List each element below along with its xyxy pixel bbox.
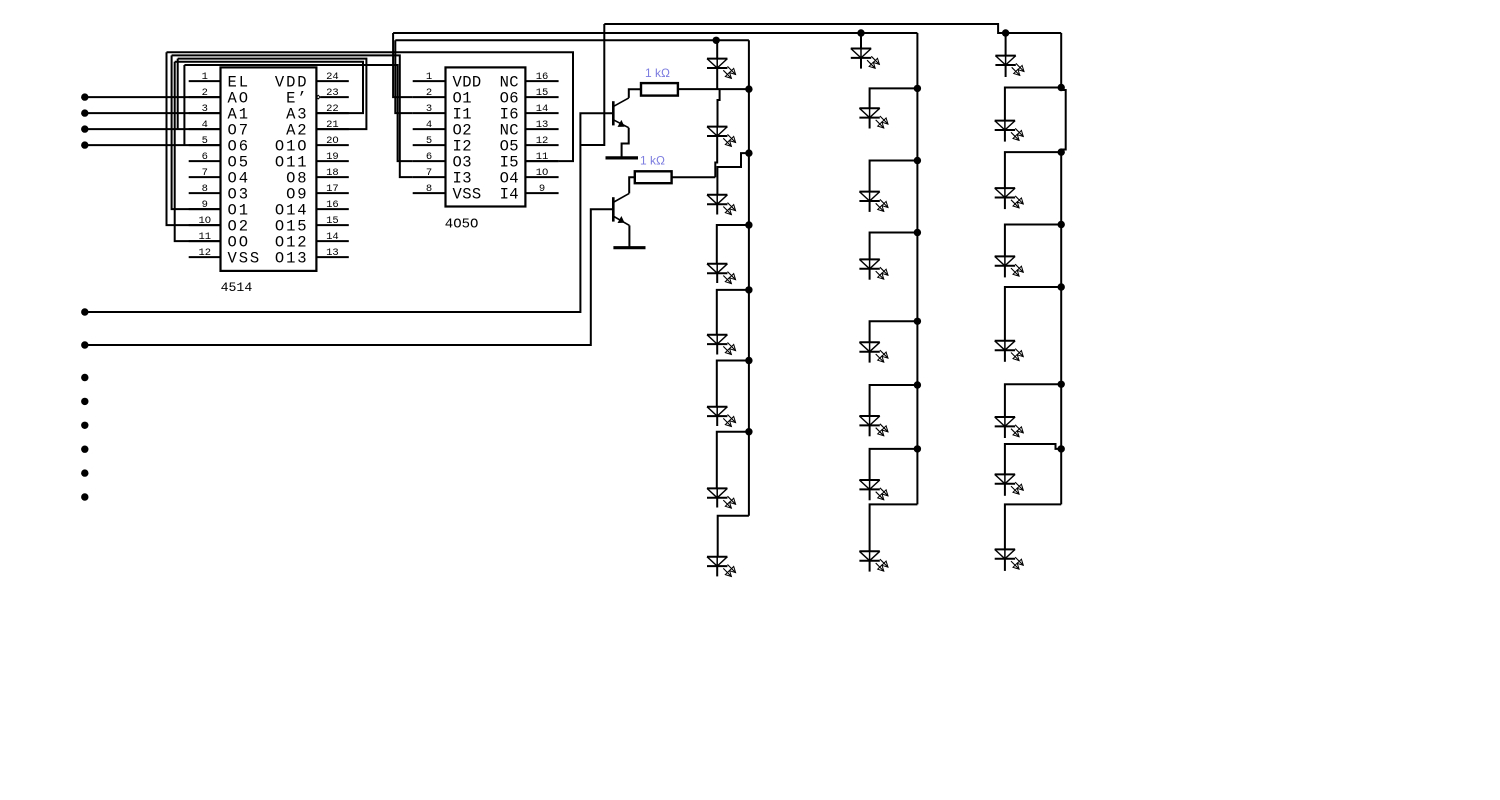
wire D23 cathode tail bbox=[1004, 484, 1006, 496]
LED D21 bbox=[995, 340, 1024, 360]
wire junction5 to D6 anode bbox=[717, 361, 749, 407]
node col3 junction 1 bbox=[1058, 84, 1065, 91]
LED D10 bbox=[859, 108, 888, 128]
node col3 junction 2 bbox=[1058, 148, 1065, 155]
LED D11 bbox=[859, 191, 888, 211]
node base-net-1 bbox=[81, 308, 88, 315]
node col3 junction 3 bbox=[1058, 221, 1065, 228]
node col3 top junction bbox=[1002, 29, 1009, 36]
svg-text:2: 2 bbox=[426, 87, 432, 99]
svg-text:4: 4 bbox=[426, 119, 432, 131]
LED D14 bbox=[859, 416, 888, 436]
wire D17 anode bbox=[1005, 33, 1007, 56]
svg-text:13: 13 bbox=[536, 119, 549, 131]
svg-text:6: 6 bbox=[426, 151, 432, 163]
node col1 junction 5 bbox=[745, 357, 752, 364]
wire col3 rail lower bbox=[1060, 150, 1062, 505]
wire col1 rail bottom to D8 anode bbox=[718, 516, 749, 557]
wire D9 anode bbox=[860, 33, 862, 49]
LED D23 bbox=[995, 474, 1024, 494]
node col1 junction 3 bbox=[745, 221, 752, 228]
wire input A1 to U1 pin 3 bbox=[85, 112, 221, 114]
wire D22 cathode tail bbox=[1004, 427, 1006, 438]
wire U2 pin2 riser to col2 top line bbox=[393, 33, 413, 97]
pin 23 E' diamond marker bbox=[317, 95, 321, 99]
wire junction to D15 anode bbox=[870, 449, 918, 480]
wire D7 cathode tail bbox=[716, 498, 718, 508]
wire D20 cathode tail bbox=[1004, 266, 1006, 277]
LED D24 bbox=[995, 549, 1024, 569]
node base-net-2 bbox=[81, 341, 88, 348]
LED D5 bbox=[707, 334, 736, 354]
node col2 junction 3 bbox=[914, 229, 921, 236]
wire junction to D18 anode bbox=[1005, 88, 1061, 121]
svg-text:1 kΩ: 1 kΩ bbox=[645, 66, 670, 80]
svg-text:8: 8 bbox=[426, 183, 432, 195]
svg-text:14: 14 bbox=[536, 103, 549, 115]
node spare input 6 bbox=[81, 493, 88, 500]
wire input A3-row to U1 pin 5 bbox=[85, 144, 221, 146]
node col3 junction 6 bbox=[1058, 445, 1065, 452]
svg-text:2O: 2O bbox=[326, 135, 339, 147]
label R1 value bbox=[645, 66, 670, 80]
wire junction to D13 anode bbox=[870, 321, 918, 342]
wire D16 cathode tail bbox=[869, 561, 871, 572]
wire net H5: A3 input row to U2 pin6 bbox=[184, 65, 412, 161]
LED D12 bbox=[859, 259, 888, 279]
label R2 value bbox=[640, 153, 665, 167]
wire junction6 to D7 anode bbox=[717, 432, 749, 489]
node col2 junction 5 bbox=[914, 381, 921, 388]
svg-text:15: 15 bbox=[326, 215, 339, 227]
svg-text:1: 1 bbox=[426, 71, 432, 83]
wire junction to D23 anode bbox=[1005, 444, 1061, 474]
wire junction to D10 anode bbox=[870, 88, 918, 108]
svg-text:23: 23 bbox=[326, 87, 339, 99]
wire junction to D22 anode bbox=[1005, 384, 1061, 417]
wire D10 cathode tail bbox=[869, 118, 871, 129]
wire Q2 base net bbox=[85, 209, 614, 345]
svg-text:24: 24 bbox=[326, 71, 339, 83]
node spare input 3 bbox=[81, 422, 88, 429]
wire Q1 base net bbox=[85, 24, 614, 312]
node spare input 4 bbox=[81, 446, 88, 453]
resistor R2 1 kOhm bbox=[635, 171, 672, 183]
U2 label 4050 bbox=[445, 216, 479, 232]
wire junction to D20 anode bbox=[1005, 225, 1061, 257]
wire col3 rail upper bbox=[1060, 33, 1062, 90]
svg-text:1 kΩ: 1 kΩ bbox=[640, 153, 665, 167]
svg-text:18: 18 bbox=[326, 167, 339, 179]
node spare input 1 bbox=[81, 374, 88, 381]
svg-text:8: 8 bbox=[202, 183, 208, 195]
svg-text:3: 3 bbox=[426, 103, 432, 115]
wire junction to D21 anode bbox=[1005, 287, 1061, 341]
svg-text:5: 5 bbox=[426, 135, 432, 147]
wire D11 cathode tail bbox=[869, 201, 871, 212]
wire top line (y=24) to col3 bbox=[604, 24, 1061, 33]
node input A0 bbox=[81, 93, 88, 100]
LED D3 bbox=[707, 194, 736, 214]
node col1 junction 2 bbox=[745, 149, 752, 156]
wire junction4 to D5 anode bbox=[717, 290, 749, 335]
wire col3 rail bottom to D24 anode bbox=[1005, 504, 1061, 549]
wire D2 cathode jog to R2 wire bbox=[715, 136, 717, 177]
LED D2 bbox=[707, 126, 736, 146]
node col2 junction 1 bbox=[914, 85, 921, 92]
node col2 junction 6 bbox=[914, 445, 921, 452]
node col2 junction 2 bbox=[914, 157, 921, 164]
wire col1 top line (y=40.3) bbox=[395, 39, 749, 41]
transistor Q2 (NPN) bbox=[613, 177, 635, 247]
node col2 top junction bbox=[857, 29, 864, 36]
svg-text:4514: 4514 bbox=[221, 280, 253, 295]
wire D4 cathode tail bbox=[716, 273, 718, 283]
wire D3 cathode tail bbox=[716, 204, 718, 214]
wire D15 cathode tail bbox=[869, 490, 871, 501]
wire input A2-row to U1 pin 4 bbox=[85, 128, 221, 130]
node input A1 bbox=[81, 109, 88, 116]
ground (Q2 emitter) bbox=[613, 246, 645, 249]
LED D22 bbox=[995, 417, 1024, 437]
svg-text:17: 17 bbox=[326, 183, 339, 195]
wire col2 rail bottom to D16 anode bbox=[870, 504, 918, 551]
node col3 junction 4 bbox=[1058, 283, 1065, 290]
svg-text:I4: I4 bbox=[500, 185, 519, 203]
node spare input 2 bbox=[81, 398, 88, 405]
svg-text:1: 1 bbox=[202, 71, 208, 83]
wire D24 cathode tail bbox=[1004, 559, 1006, 571]
wire net H4: U1 pin11 to U1 pin22 bbox=[175, 62, 363, 241]
wire D5 cathode tail bbox=[716, 344, 718, 354]
U1 label 4514 bbox=[221, 280, 253, 295]
node col1 junction 4 bbox=[745, 286, 752, 293]
wire D9 cathode tail bbox=[860, 58, 862, 68]
svg-text:12: 12 bbox=[198, 247, 211, 259]
node col2 junction 4 bbox=[914, 318, 921, 325]
svg-text:9: 9 bbox=[539, 183, 545, 195]
wire junction to D14 anode bbox=[870, 385, 918, 416]
LED D13 bbox=[859, 342, 888, 362]
LED D9 bbox=[851, 48, 880, 68]
LED D1 bbox=[707, 58, 736, 78]
svg-text:7: 7 bbox=[426, 167, 432, 179]
node col1 top junction bbox=[713, 37, 720, 44]
wire junction to D11 anode bbox=[870, 161, 918, 192]
wire D8 cathode tail bbox=[716, 566, 718, 576]
ground (Q1 emitter) bbox=[606, 156, 639, 159]
svg-text:12: 12 bbox=[536, 135, 549, 147]
wire D2 anode jog bbox=[718, 89, 720, 127]
svg-text:VSS: VSS bbox=[453, 185, 482, 203]
svg-text:6: 6 bbox=[202, 151, 208, 163]
wire junction3 to D4 anode bbox=[717, 225, 749, 264]
wire D1 cathode to R1 line bbox=[716, 68, 718, 89]
LED D19 bbox=[995, 188, 1024, 208]
wire col2 rail bbox=[916, 33, 918, 504]
wire junction to D19 anode bbox=[1005, 152, 1061, 188]
node col1 junction 6 bbox=[745, 428, 752, 435]
wire D14 cathode tail bbox=[869, 426, 871, 437]
wire net H2: U1 pin9 to U2 pin7 bbox=[172, 55, 413, 209]
svg-text:1O: 1O bbox=[536, 167, 549, 179]
wire D1 anode bbox=[716, 40, 718, 58]
wire D6 cathode tail bbox=[716, 416, 718, 426]
resistor R1 1 kOhm bbox=[641, 83, 678, 96]
node spare input 5 bbox=[81, 469, 88, 476]
wire D17 cathode tail bbox=[1005, 65, 1007, 77]
node col3 junction 5 bbox=[1058, 381, 1065, 388]
wire U2 pin3 riser to col1 top line bbox=[395, 40, 412, 113]
LED D18 bbox=[995, 120, 1024, 140]
svg-text:7: 7 bbox=[202, 167, 208, 179]
svg-text:16: 16 bbox=[536, 71, 549, 83]
node col1 junction 1 bbox=[745, 85, 752, 92]
LED D6 bbox=[707, 406, 736, 426]
LED D17 bbox=[995, 55, 1024, 75]
wire D21 cathode tail bbox=[1004, 351, 1006, 362]
wire net H3: A2 input row to U1 pin21 bbox=[178, 59, 367, 130]
wire col1 rail bbox=[748, 40, 750, 515]
wire D18 cathode tail bbox=[1004, 130, 1006, 141]
svg-text:14: 14 bbox=[326, 231, 339, 243]
wire junction2 to D3 anode bbox=[717, 153, 749, 195]
LED D7 bbox=[707, 488, 736, 508]
node input A2-row bbox=[81, 125, 88, 132]
svg-text:O13: O13 bbox=[275, 249, 309, 267]
wire junction to D12 anode bbox=[870, 233, 918, 260]
wire input A0 to U1 pin 2 bbox=[85, 96, 221, 98]
LED D8 bbox=[707, 556, 736, 576]
LED D16 bbox=[859, 551, 888, 571]
wire D19 cathode tail bbox=[1004, 198, 1006, 209]
LED D15 bbox=[859, 480, 888, 500]
svg-text:13: 13 bbox=[326, 247, 339, 259]
node input A3-row bbox=[81, 141, 88, 148]
svg-text:VSS: VSS bbox=[228, 249, 262, 267]
wire D12 cathode tail bbox=[869, 269, 871, 280]
LED D20 bbox=[995, 256, 1024, 276]
wire R1 output to col1 junction bbox=[678, 88, 749, 90]
svg-text:19: 19 bbox=[326, 151, 339, 163]
IC U1 4514 (24-pin) bbox=[189, 67, 349, 271]
wire R2 output to LED D2 cathode bbox=[672, 176, 716, 178]
wire col2 top line (y=33) bbox=[393, 32, 917, 34]
transistor Q1 (NPN) bbox=[613, 89, 641, 157]
IC U2 4050 (16-pin) bbox=[413, 67, 559, 206]
wire col3 rail jog bbox=[1061, 90, 1066, 150]
svg-text:16: 16 bbox=[326, 199, 339, 211]
LED D4 bbox=[707, 263, 736, 283]
wire D13 cathode tail bbox=[869, 352, 871, 363]
svg-text:15: 15 bbox=[536, 87, 549, 99]
svg-text:4O5O: 4O5O bbox=[445, 216, 479, 232]
wire net H1: U1 pin10 to U2 pin11 bbox=[167, 52, 574, 225]
